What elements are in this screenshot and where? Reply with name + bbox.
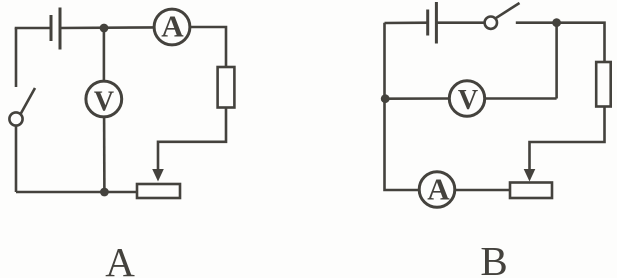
wire: A top-right segment <box>190 27 226 68</box>
wire: B bottom segment ammeter to rheostat <box>455 189 510 192</box>
label B <box>480 238 507 278</box>
wire: A left side lower <box>15 126 18 192</box>
resistor R (circuit B) <box>596 62 611 107</box>
wire: A top middle segment <box>60 26 154 29</box>
svg-text:A: A <box>105 239 135 278</box>
switch S (circuit B, open) <box>485 3 520 29</box>
svg-text:A: A <box>161 9 184 44</box>
label A <box>105 239 135 278</box>
wire: B bottom-left corner / left side <box>385 23 420 190</box>
node: A bottom junction dot <box>100 188 109 197</box>
ammeter A (circuit B) <box>419 171 455 207</box>
wire: B vertical from top dot to voltmeter line <box>555 23 558 99</box>
wire: B right side down to wiper <box>530 107 605 171</box>
wire: A bottom segment <box>16 191 137 194</box>
svg-text:B: B <box>480 238 507 278</box>
battery (circuit A) <box>51 8 60 50</box>
wire: B top-left segment <box>385 21 428 24</box>
voltmeter V (circuit A) <box>86 28 122 192</box>
wire: B segment battery to switch <box>436 21 484 24</box>
ammeter A (circuit A) <box>154 9 190 45</box>
switch S (circuit A, open) <box>9 88 35 126</box>
node: A top junction dot <box>100 24 109 33</box>
wire: A right side down to wiper <box>158 108 226 171</box>
rheostat wiper arrow (circuit B) <box>524 169 536 182</box>
battery (circuit B) <box>428 2 437 44</box>
rheostat wiper arrow (circuit A) <box>152 169 164 182</box>
voltmeter V (circuit B) <box>385 81 556 116</box>
svg-text:A: A <box>427 171 450 206</box>
rheostat (circuit B) <box>510 183 552 199</box>
wire: A top-left segment <box>16 28 51 29</box>
resistor R (circuit A) <box>218 67 235 108</box>
node: B left junction dot <box>381 94 390 103</box>
node: B top junction dot <box>552 18 561 27</box>
wire: A left side upper <box>15 28 18 87</box>
svg-text:V: V <box>458 85 478 116</box>
svg-text:V: V <box>94 86 114 117</box>
wire: B top-right segment <box>516 23 605 62</box>
rheostat (circuit A) <box>137 184 180 198</box>
